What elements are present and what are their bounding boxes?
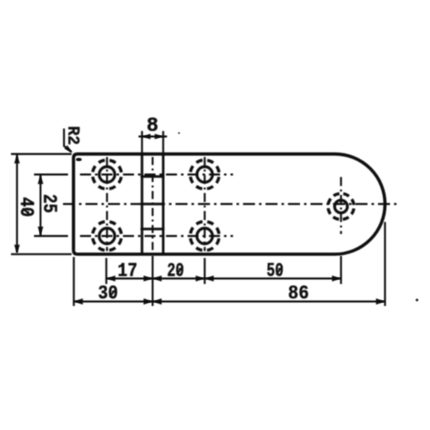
svg-text:50: 50 xyxy=(267,260,284,282)
svg-text:40: 40 xyxy=(15,197,37,217)
knuckle division 3 xyxy=(141,228,165,231)
hole column 1 centerline xyxy=(106,157,108,251)
barrel right edge line xyxy=(162,154,165,254)
dimension 40 line xyxy=(11,154,72,254)
svg-text:20: 20 xyxy=(167,260,184,282)
R2 arrow xyxy=(65,145,73,153)
hole top-left bore xyxy=(99,167,115,183)
hole top-left countersink xyxy=(93,160,122,189)
barrel left edge line xyxy=(141,154,144,254)
hole column 2 centerline xyxy=(204,157,206,251)
hole row 1 centerline xyxy=(80,174,233,176)
extension line right hole xyxy=(340,256,342,284)
svg-text:86: 86 xyxy=(288,283,309,305)
30 left arrow xyxy=(74,298,83,304)
8 left arrow xyxy=(142,134,151,139)
dimension 8 over barrel xyxy=(139,131,168,155)
svg-text:8: 8 xyxy=(146,115,158,138)
scan speck 2 xyxy=(416,299,419,302)
17 right arrow xyxy=(144,276,153,282)
bottom dimension row 1 line (17,20,50) xyxy=(106,278,341,280)
25 top arrow xyxy=(38,175,44,184)
svg-text:25: 25 xyxy=(38,194,60,213)
label 20 xyxy=(167,260,184,282)
extension line plate left edge xyxy=(73,257,75,306)
arrowheads xyxy=(14,134,385,305)
label 30 xyxy=(98,283,118,305)
hole bottom-mid countersink xyxy=(190,222,219,251)
hinge plate outline xyxy=(74,154,386,254)
right hole vertical centerline xyxy=(340,177,342,234)
bottom dimension row 2 line (30,86) xyxy=(74,301,385,303)
hole right countersink xyxy=(328,194,354,220)
20 right arrow xyxy=(196,276,205,282)
hole right bore xyxy=(335,200,348,213)
hole bottom-mid bore xyxy=(197,228,213,244)
label 50 xyxy=(267,260,284,282)
extension line barrel axis xyxy=(152,256,154,306)
extension line plate right end xyxy=(384,222,386,306)
knuckle division 1 xyxy=(141,175,165,178)
86 right arrow xyxy=(376,298,385,304)
svg-text:30: 30 xyxy=(98,283,118,305)
main horizontal centerline xyxy=(63,203,397,205)
scan speck 1 xyxy=(178,132,181,135)
hole top-mid countersink xyxy=(190,160,219,189)
17 left arrow xyxy=(106,276,115,282)
label 40 rotated xyxy=(15,197,37,217)
svg-text:17: 17 xyxy=(118,260,138,282)
scan blob near corner xyxy=(76,158,82,162)
pin axis centerline xyxy=(152,157,154,251)
25 bottom arrow xyxy=(38,227,44,236)
86 left arrow xyxy=(153,298,162,304)
40 top arrow xyxy=(14,155,20,164)
40 bottom arrow xyxy=(14,245,20,254)
dimension 25 line xyxy=(34,175,68,237)
R2 leader line xyxy=(64,129,72,153)
hole bottom-left bore xyxy=(99,228,115,244)
20 left arrow xyxy=(153,276,162,282)
hole top-mid bore xyxy=(197,167,213,183)
8 right arrow xyxy=(155,134,164,139)
30 right arrow xyxy=(144,298,153,304)
50 right arrow xyxy=(332,276,341,282)
extension line hole col1 xyxy=(105,258,107,284)
hole row 2 centerline xyxy=(80,235,233,237)
hole bottom-left countersink xyxy=(93,222,122,251)
knuckle division 2 xyxy=(141,203,165,206)
svg-text:R2: R2 xyxy=(63,126,82,145)
extension line hole col2 xyxy=(204,258,206,284)
50 left arrow xyxy=(205,276,214,282)
